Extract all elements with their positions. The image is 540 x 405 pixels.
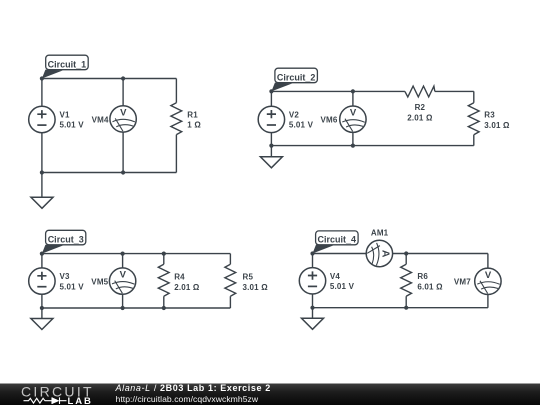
R4 value label [174,272,200,292]
node dot C2 bottom-left [269,144,273,148]
svg-text:Circuit_4: Circuit_4 [318,234,357,244]
logo LAB text [68,396,93,405]
wire R6 stubs [405,254,407,308]
wire left C4 (V4 stubs) [312,254,314,308]
voltmeter VM4 [110,106,136,132]
V1 value label [60,110,85,129]
ground C2 [260,146,282,168]
wire VM4 stubs [122,79,124,173]
voltage source V4 [299,268,325,294]
svg-text:3.01 Ω: 3.01 Ω [484,121,510,130]
svg-text:V: V [120,270,127,281]
svg-text:A: A [379,250,391,258]
node dot C3 VM5 top [121,252,125,256]
svg-text:V1: V1 [60,110,71,119]
ground C3 [31,308,53,330]
R1 value label [187,110,201,129]
AM1 name label [371,229,389,238]
wire top C3 [42,253,231,255]
VM4 name label [92,115,109,124]
R6 value label [417,272,443,292]
node dot C4 top-left [310,251,314,255]
node dot C2 VM6 top [351,89,355,93]
svg-text:1 Ω: 1 Ω [187,120,201,129]
footer url line [116,394,259,404]
R2 value label [407,103,433,123]
svg-text:V: V [350,108,357,119]
svg-text:VM5: VM5 [91,278,108,287]
svg-text:5.01 V: 5.01 V [289,120,314,129]
svg-text:2.01 Ω: 2.01 Ω [407,114,433,123]
svg-text:Alana-L / 2B03 Lab 1: Exercise: Alana-L / 2B03 Lab 1: Exercise 2 [115,383,271,393]
V2 value label [289,110,314,129]
svg-text:R6: R6 [417,272,428,281]
resistor R2 [405,86,435,97]
resistor R5 [225,264,236,296]
wire left C2 (V2 stubs) [270,91,272,145]
node dot C1 top-left [40,76,44,80]
resistor R1 [171,103,182,135]
V4 value label [330,272,355,291]
svg-text:5.01 V: 5.01 V [60,120,85,129]
wire right C4 (VM7 stubs) [487,254,489,308]
node dot C3 R4 bottom [162,306,166,310]
svg-text:V2: V2 [289,110,300,119]
wire top C2 [271,90,473,92]
svg-text:R2: R2 [415,103,426,112]
node label Circuit_4 [313,231,359,254]
node dot C4 R6 top [404,251,408,255]
wire bottom C4 [313,307,488,309]
svg-text:V4: V4 [330,272,341,281]
node dot C1 bottom-left [40,170,44,174]
voltage source V3 [29,268,55,294]
VM6 name label [321,116,338,125]
wire bottom C3 [42,307,231,309]
svg-text:Circuit_1: Circuit_1 [48,59,87,69]
voltage source V2 [258,106,284,132]
node dot C1 VM4 top [121,76,125,80]
wire right C1 (R1 stubs) [175,79,177,173]
node dot C2 top-left [269,89,273,93]
svg-text:VM4: VM4 [92,115,109,124]
svg-text:2.01 Ω: 2.01 Ω [174,283,200,292]
wire VM6 stubs [352,91,354,145]
R3 value label [484,110,510,129]
voltmeter VM5 [109,268,135,294]
node dot C1 VM4 bottom [121,170,125,174]
node dot C4 R6 bottom [404,306,408,310]
R5 value label [243,272,269,292]
svg-text:Circuit_2: Circuit_2 [277,72,316,82]
wire R4 stubs [163,254,165,308]
node dot C3 bottom-left [40,306,44,310]
VM7 name label [454,278,471,287]
node dot C3 VM5 bottom [121,306,125,310]
node dot C3 top-left [40,252,44,256]
VM5 name label [91,278,108,287]
ground C4 [302,308,324,330]
svg-text:R4: R4 [174,272,185,281]
wire left C3 (V3 stubs) [41,254,43,308]
svg-text:V: V [120,108,127,119]
resistor R3 [468,103,479,135]
voltmeter VM7 [475,268,501,294]
node dot C4 bottom-left [310,306,314,310]
ammeter AM1 [366,240,392,266]
wire bottom C2 [271,145,473,147]
resistor R6 [401,264,412,296]
svg-text:R1: R1 [187,110,198,119]
footer title line [115,383,271,393]
svg-text:Circut_3: Circut_3 [48,234,84,244]
ground C1 [31,173,53,209]
wire bottom C1 [42,172,177,174]
wire right C2 (R3 stubs) [473,91,475,145]
logo zigzag and diode [24,397,67,404]
wire left C1 (V1 stubs) [41,79,43,173]
node label Circuit_1 [42,55,88,78]
svg-text:V: V [485,270,492,281]
svg-text:http://circuitlab.com/cqdvxwck: http://circuitlab.com/cqdvxwckmh5zw [116,394,259,404]
svg-text:VM7: VM7 [454,278,471,287]
footer bar [0,384,540,405]
voltmeter VM6 [340,106,366,132]
node dot C2 VM6 bottom [351,144,355,148]
svg-text:VM6: VM6 [321,116,338,125]
svg-text:5.01 V: 5.01 V [60,282,85,291]
svg-text:R3: R3 [484,110,495,119]
svg-text:V3: V3 [60,272,71,281]
wire VM5 stubs [122,254,124,308]
svg-text:R5: R5 [243,272,254,281]
svg-text:6.01 Ω: 6.01 Ω [417,282,443,291]
node label Circuit_3 [42,230,86,253]
wire right C3 (R5 stubs) [229,254,231,308]
logo CIRCUIT text [21,384,94,400]
V3 value label [60,272,85,291]
svg-text:3.01 Ω: 3.01 Ω [243,283,269,292]
svg-text:LAB: LAB [68,396,93,405]
wire top C4 [313,253,488,255]
svg-text:AM1: AM1 [371,229,389,238]
wire top C1 [42,78,177,80]
node dot C3 R4 top [162,252,166,256]
node label Circuit_2 [271,68,317,91]
svg-text:5.01 V: 5.01 V [330,282,355,291]
voltage source V1 [29,106,55,132]
resistor R4 [158,264,169,296]
